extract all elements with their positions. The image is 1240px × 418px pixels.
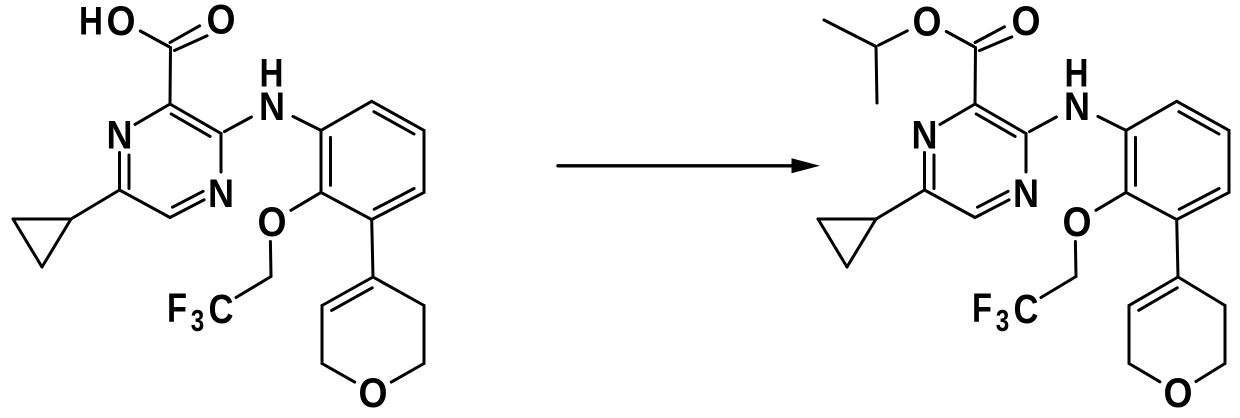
svg-text:H: H bbox=[79, 0, 103, 44]
svg-text:3: 3 bbox=[191, 303, 205, 338]
svg-text:N: N bbox=[208, 172, 234, 216]
svg-text:N: N bbox=[259, 85, 285, 129]
svg-text:O: O bbox=[913, 0, 942, 45]
svg-text:N: N bbox=[1064, 85, 1090, 129]
svg-text:F: F bbox=[167, 285, 187, 331]
svg-text:N: N bbox=[1013, 172, 1039, 216]
svg-text:N: N bbox=[107, 114, 133, 158]
svg-text:C: C bbox=[1014, 286, 1039, 332]
svg-text:F: F bbox=[972, 285, 992, 331]
svg-text:3: 3 bbox=[996, 303, 1010, 338]
svg-text:O: O bbox=[258, 198, 287, 245]
svg-text:O: O bbox=[107, 0, 136, 44]
svg-text:N: N bbox=[912, 114, 938, 158]
svg-text:O: O bbox=[1063, 198, 1092, 245]
svg-text:O: O bbox=[359, 369, 388, 413]
svg-text:C: C bbox=[209, 286, 234, 332]
svg-text:O: O bbox=[1164, 369, 1193, 413]
svg-text:O: O bbox=[1012, 0, 1041, 44]
svg-text:O: O bbox=[207, 0, 236, 43]
